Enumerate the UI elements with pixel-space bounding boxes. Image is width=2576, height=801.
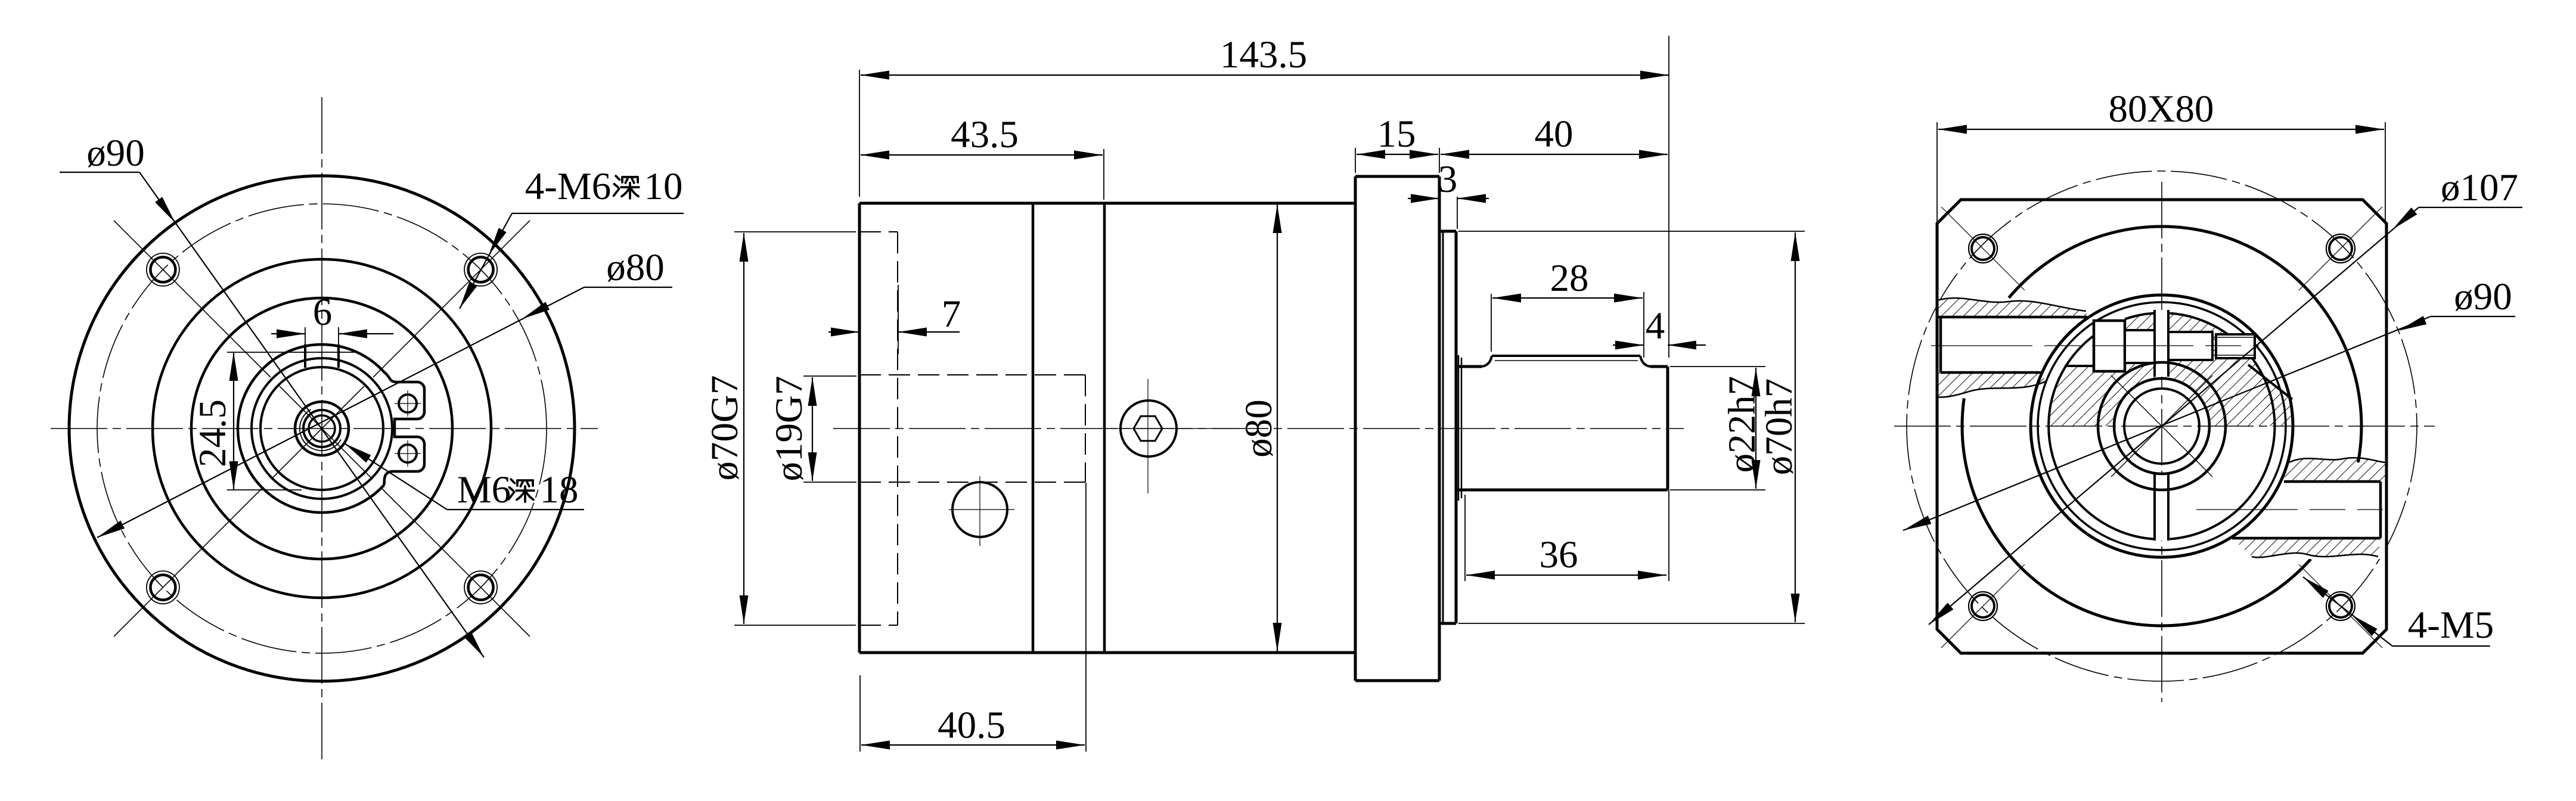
bolt hole M6 at 807,452 xyxy=(464,253,497,286)
svg-text:24.5: 24.5 xyxy=(191,399,234,467)
ring inner circle (gaps) xyxy=(2125,313,2154,319)
dimension 143.5 xyxy=(859,70,860,197)
leader M6 deep 18 xyxy=(447,509,584,510)
dimension 3 xyxy=(1457,197,1458,229)
dimension 80X80 xyxy=(1936,122,1938,222)
ear with tabs outline xyxy=(384,372,424,485)
small radial hole xyxy=(952,482,1007,537)
top spoke xyxy=(2155,310,2168,377)
dimension d80 xyxy=(1277,204,1278,651)
dimension d70G7 xyxy=(734,231,856,232)
left bore outline xyxy=(1937,316,2087,319)
bolt hole M6 at 273,452 xyxy=(147,253,179,286)
right bore hatch strips xyxy=(2284,458,2385,482)
right bore outline xyxy=(2284,480,2381,483)
svg-text:ø80: ø80 xyxy=(606,246,665,289)
dimension 28 xyxy=(1491,294,1492,352)
spacer block xyxy=(2125,330,2156,363)
dimension 15 xyxy=(1355,148,1356,173)
M5 hole at 3327,1017 xyxy=(1969,592,1997,620)
M5 hole at 3927,1017 xyxy=(2326,592,2355,620)
bolt circle d80 (dash-dot) xyxy=(97,204,547,653)
svg-text:M6: M6 xyxy=(457,468,511,511)
centerline horizontal xyxy=(1894,426,2435,427)
svg-text:ø19G7: ø19G7 xyxy=(768,376,811,482)
dimension d19G7 xyxy=(803,375,856,377)
center cross ticks xyxy=(2111,375,2212,477)
leader d80 xyxy=(584,287,672,288)
dimension 4 xyxy=(1613,344,1644,346)
bolt shank xyxy=(2216,334,2255,358)
left bore hatch strips xyxy=(1937,298,2087,317)
dimension 40 xyxy=(1441,154,1668,155)
centerline vertical xyxy=(321,97,322,765)
left bore centerline xyxy=(1931,345,2259,346)
leader d90 xyxy=(60,172,139,173)
collar bore circle d24.5 xyxy=(260,367,383,490)
bore circle xyxy=(2124,389,2199,464)
body circle behind flange (gaps at side bores) xyxy=(2009,226,2361,462)
body outline xyxy=(859,202,1355,205)
dimension 40.5 xyxy=(859,675,861,752)
hatch slant boundary xyxy=(2248,365,2292,399)
leader d90 right xyxy=(2431,316,2515,317)
clamp collar outer circle (gap at ear) xyxy=(238,344,384,513)
M5 hole at 3327,417 xyxy=(1969,234,1997,263)
svg-text:3: 3 xyxy=(1438,158,1458,201)
hub circle xyxy=(2098,362,2226,490)
dimension 36 xyxy=(1464,495,1466,581)
svg-text:ø80: ø80 xyxy=(1237,399,1280,458)
shaft relief rings xyxy=(1458,355,1460,501)
hidden bore d19G7 xyxy=(859,374,1085,375)
svg-text:4-M6: 4-M6 xyxy=(525,165,611,208)
bolt circle d90 dash-dot xyxy=(1907,171,2417,681)
M5 hole at 3927,417 xyxy=(2326,234,2355,263)
svg-text:ø107: ø107 xyxy=(2441,166,2518,209)
bolt hole M6 at 807,986 xyxy=(464,571,497,604)
svg-text:ø90: ø90 xyxy=(86,132,145,175)
svg-text:ø90: ø90 xyxy=(2454,275,2512,318)
bottom spoke xyxy=(2155,473,2168,541)
leader 4-M6 deep 10 xyxy=(512,213,684,214)
flange plate xyxy=(1354,176,1357,681)
leader 4-M5 xyxy=(2392,645,2490,647)
flange outer circle d90 xyxy=(69,176,575,681)
collar counterbore circle xyxy=(252,358,392,499)
svg-text:36: 36 xyxy=(1540,533,1578,576)
svg-text:18: 18 xyxy=(540,468,579,511)
ring gear outer circle xyxy=(2031,295,2293,557)
dimension 43.5 xyxy=(1103,149,1104,200)
dimension 24.5 xyxy=(233,352,234,490)
centerline diagonal NW-SE xyxy=(114,221,271,377)
dimension 7 xyxy=(898,285,899,354)
svg-text:15: 15 xyxy=(1377,113,1416,156)
boss circle xyxy=(2114,378,2209,474)
square flange outline with chamfers xyxy=(1937,200,2386,653)
centerline vertical xyxy=(2161,182,2162,702)
hatch boundary line xyxy=(2065,365,2094,367)
svg-text:4: 4 xyxy=(1646,305,1665,347)
key (white) xyxy=(2094,321,2125,371)
svg-text:4-M5: 4-M5 xyxy=(2408,604,2494,647)
dimension d22h7 xyxy=(1670,366,1765,367)
hex socket screw xyxy=(1121,401,1177,457)
centerline diagonal NE-SW xyxy=(373,221,530,377)
pilot boss d70h7 xyxy=(1439,230,1456,233)
keyway flat line / extension for 24.5 xyxy=(227,352,356,353)
svg-text:7: 7 xyxy=(942,293,961,336)
dimension d70h7 xyxy=(1458,231,1805,232)
left side bore white band xyxy=(1937,299,2134,397)
svg-text:143.5: 143.5 xyxy=(1220,33,1307,76)
centerline horizontal xyxy=(51,428,598,429)
keyway slot in bore xyxy=(305,327,306,368)
svg-text:ø70G7: ø70G7 xyxy=(703,375,746,481)
output shaft d22h7 xyxy=(1456,365,1482,368)
svg-text:43.5: 43.5 xyxy=(951,113,1019,156)
svg-text:10: 10 xyxy=(644,165,683,208)
circle d46 boss xyxy=(191,298,452,559)
circle d60 boss xyxy=(153,259,491,598)
svg-text:28: 28 xyxy=(1550,257,1589,300)
dimension 6 (keyway width) xyxy=(271,333,305,334)
center hole circles xyxy=(295,402,349,455)
section line 43.5 xyxy=(1032,203,1035,653)
bolt hole M6 at 273,986 xyxy=(147,571,179,604)
svg-text:6: 6 xyxy=(313,291,333,334)
tab hole lower xyxy=(399,445,417,462)
right side bore white band xyxy=(2229,462,2386,559)
svg-text:40: 40 xyxy=(1535,113,1573,156)
right bore centerline xyxy=(2196,509,2383,510)
svg-text:80X80: 80X80 xyxy=(2109,88,2214,131)
svg-text:ø70h7: ø70h7 xyxy=(1758,378,1801,476)
svg-text:40.5: 40.5 xyxy=(938,704,1005,747)
bolt head xyxy=(2168,332,2212,360)
hidden bore d70G7 xyxy=(859,231,898,232)
centerline horizontal xyxy=(833,428,1684,429)
leader d107 xyxy=(2419,207,2522,208)
tab hole upper xyxy=(399,395,417,412)
